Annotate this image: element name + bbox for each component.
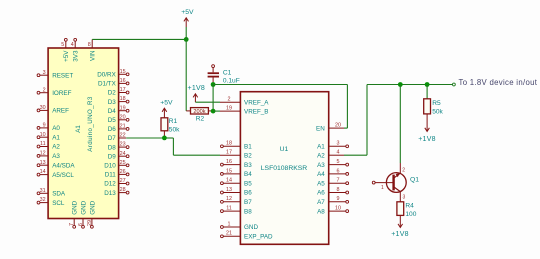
junction VREF_B node [211, 109, 216, 114]
svg-text:A5/SCL: A5/SCL [52, 172, 74, 179]
A1 pin 27 D12 [104, 178, 129, 188]
svg-text:10: 10 [335, 206, 341, 212]
resistor R1 50k [161, 118, 168, 138]
svg-text:9: 9 [337, 196, 340, 202]
Q1 pin 1 number [381, 185, 384, 191]
svg-text:20: 20 [120, 114, 126, 120]
label 100 [405, 211, 416, 218]
wire +5V vertical to R2 [185, 27, 187, 111]
A1 pin 24 D9 [108, 151, 129, 161]
svg-text:AREF: AREF [52, 108, 69, 115]
U1 pin 18 B1 [221, 141, 253, 151]
A1 pin 10 A1 [37, 132, 60, 142]
value Arduino_UNO_R3 [87, 96, 94, 152]
svg-text:EXP_PAD: EXP_PAD [244, 234, 273, 241]
svg-text:2: 2 [43, 87, 46, 93]
A1 pin 13 A4/SDA [37, 160, 75, 170]
svg-text:A1: A1 [317, 144, 325, 151]
svg-text:7: 7 [337, 178, 340, 184]
junction +5V/VIN node [184, 37, 189, 42]
svg-text:B1: B1 [244, 144, 252, 151]
power +1V8 at R4 [391, 223, 409, 238]
svg-text:To 1.8V device in/out: To 1.8V device in/out [459, 78, 538, 87]
svg-text:8: 8 [337, 187, 340, 193]
U1 pin 16 B3 [221, 159, 253, 169]
svg-text:26: 26 [120, 169, 126, 175]
svg-text:SCL: SCL [52, 200, 65, 207]
A1 pin 28 D13 [104, 187, 129, 197]
svg-text:18: 18 [226, 141, 232, 147]
svg-text:31: 31 [40, 188, 46, 194]
U1 pin 6 A4 [317, 168, 349, 178]
svg-text:A4/SDA: A4/SDA [52, 162, 75, 169]
svg-text:18: 18 [120, 96, 126, 102]
svg-text:B5: B5 [244, 180, 252, 187]
U1 pin 4 A2 [317, 150, 344, 160]
junction R5 node [425, 82, 430, 87]
svg-text:C1: C1 [223, 70, 232, 77]
svg-text:A2: A2 [317, 152, 325, 159]
junction R1/D7 node [162, 136, 167, 141]
svg-text:11: 11 [40, 141, 46, 147]
svg-text:2: 2 [228, 97, 231, 103]
U1 pin 11 B8 [221, 206, 253, 216]
svg-text:21: 21 [120, 124, 126, 130]
A1 pin 5 +5V [61, 38, 70, 61]
A1 pin 20 D5 [108, 114, 129, 124]
svg-text:+5V: +5V [63, 50, 70, 62]
svg-text:GND: GND [80, 200, 87, 214]
wire C1 node down to VREF_B node [212, 85, 214, 112]
svg-text:13: 13 [226, 187, 232, 193]
U1 pin 5 A3 [317, 159, 349, 169]
svg-text:9: 9 [43, 123, 46, 129]
A1 pin 16 D1/TX [98, 78, 129, 88]
label 50k R1 [169, 126, 180, 133]
U1 pin 7 A5 [317, 178, 349, 188]
svg-text:VREF_B: VREF_B [244, 108, 269, 115]
svg-text:3: 3 [43, 70, 46, 76]
A1 pin 19 D4 [108, 105, 129, 115]
svg-text:22: 22 [120, 133, 126, 139]
svg-text:R2: R2 [196, 115, 205, 122]
A1 pin 3 RESET [37, 70, 73, 80]
label C1 [223, 70, 232, 77]
Q1 pin 2 number [402, 168, 405, 174]
U1 pin 20 EN [316, 123, 344, 133]
svg-text:A8: A8 [317, 208, 325, 215]
junction C1 bottom node [211, 82, 216, 87]
U1 pin 3 A1 [317, 141, 349, 151]
U1 pin 15 B4 [221, 168, 253, 178]
svg-text:1: 1 [228, 221, 231, 227]
arduino module A1 body [48, 48, 119, 219]
power +5V at R1 [160, 100, 173, 118]
resistor R4 100 [397, 202, 404, 223]
svg-text:15: 15 [120, 69, 126, 75]
wire VIN to +5V [92, 38, 186, 40]
wire device line to Q1 [399, 85, 401, 164]
label Q1 [410, 176, 419, 183]
svg-text:B7: B7 [244, 199, 252, 206]
label 0.1uF [223, 77, 240, 84]
wire D7 to R1 and B2 [126, 138, 220, 155]
svg-text:GND: GND [89, 200, 96, 214]
svg-text:D9: D9 [108, 153, 117, 160]
svg-text:25: 25 [120, 160, 126, 166]
wire +1V8 to VREF_A [195, 101, 220, 103]
A1 pin 26 D11 [105, 169, 129, 179]
svg-text:A2: A2 [52, 144, 60, 151]
IC U1 LSF0108RKSR body [240, 92, 328, 245]
svg-text:D7: D7 [108, 135, 117, 142]
svg-text:R1: R1 [169, 118, 178, 125]
svg-text:D5: D5 [108, 117, 117, 124]
power +1V8 at VREF_A [188, 85, 206, 102]
svg-text:EN: EN [316, 125, 325, 132]
svg-text:50k: 50k [169, 126, 180, 133]
svg-text:28: 28 [120, 187, 126, 193]
U1 pin 1 GND [221, 221, 259, 231]
U1 pin 10 A8 [317, 206, 349, 216]
svg-text:7: 7 [69, 223, 75, 226]
svg-text:GND: GND [72, 200, 79, 214]
svg-text:D11: D11 [105, 172, 117, 179]
svg-text:11: 11 [226, 206, 232, 212]
label R5 [432, 100, 441, 107]
svg-text:B8: B8 [244, 208, 252, 215]
svg-text:VIN: VIN [90, 50, 97, 61]
svg-text:D3: D3 [108, 99, 117, 106]
A1 pin 4 3V3 [71, 38, 80, 61]
svg-text:5: 5 [337, 159, 340, 165]
U1 pin 19 VREF_B [220, 106, 269, 116]
svg-text:16: 16 [226, 159, 232, 165]
svg-text:D1/TX: D1/TX [98, 81, 117, 88]
svg-text:Q1: Q1 [410, 176, 419, 183]
svg-text:D6: D6 [108, 126, 117, 133]
svg-text:12: 12 [226, 196, 232, 202]
svg-text:10: 10 [40, 132, 46, 138]
svg-text:IOREF: IOREF [52, 90, 71, 97]
svg-text:29: 29 [87, 220, 93, 226]
svg-text:5: 5 [61, 42, 64, 48]
wire VREF_B node to pin 19 [213, 110, 220, 112]
svg-text:+1V8: +1V8 [391, 231, 409, 238]
svg-text:3: 3 [337, 141, 340, 147]
U1 pin 12 B7 [221, 196, 253, 206]
svg-text:D12: D12 [104, 181, 116, 188]
svg-text:50k: 50k [432, 108, 443, 115]
label To 1.8V device in/out [459, 78, 538, 87]
value LSF0108RKSR [261, 165, 308, 172]
svg-text:Arduino_UNO_R3: Arduino_UNO_R3 [87, 96, 94, 152]
svg-text:8: 8 [88, 42, 91, 48]
A1 pin 31 SDA [37, 188, 66, 198]
A1 pin 30 AREF [37, 105, 69, 115]
svg-text:B6: B6 [244, 190, 252, 197]
svg-text:2: 2 [402, 168, 405, 174]
svg-text:12: 12 [40, 151, 46, 157]
svg-text:17: 17 [120, 87, 126, 93]
svg-text:A3: A3 [52, 153, 60, 160]
svg-text:A6: A6 [317, 190, 325, 197]
svg-text:24: 24 [120, 151, 126, 157]
svg-text:200k: 200k [193, 109, 205, 115]
svg-text:D13: D13 [104, 190, 116, 197]
svg-text:A3: A3 [317, 162, 325, 169]
svg-text:A1: A1 [75, 125, 82, 133]
svg-text:R5: R5 [432, 100, 441, 107]
svg-text:A5: A5 [317, 180, 325, 187]
A1 pin 8 VIN [88, 39, 97, 61]
svg-text:32: 32 [40, 197, 46, 203]
U1 pin 8 A6 [317, 187, 349, 197]
svg-text:A0: A0 [52, 125, 60, 132]
U1 pin 21 EXP_PAD [221, 231, 274, 241]
svg-text:6: 6 [337, 168, 340, 174]
wire A2 to device line [344, 85, 367, 156]
svg-text:A7: A7 [317, 199, 325, 206]
svg-text:+1V8: +1V8 [188, 85, 206, 92]
svg-text:0.1uF: 0.1uF [223, 77, 240, 84]
resistor R2 200k [186, 108, 213, 116]
U1 pin 13 B6 [221, 187, 253, 197]
A1 pin 11 A2 [37, 141, 60, 151]
A1 pin 7 GND [69, 200, 78, 228]
svg-text:4: 4 [71, 42, 74, 48]
svg-text:17: 17 [226, 150, 232, 156]
svg-text:B4: B4 [244, 171, 252, 178]
label 50k R5 [432, 108, 443, 115]
svg-text:30: 30 [40, 105, 46, 111]
svg-text:3V3: 3V3 [73, 50, 80, 62]
U1 pin 17 B2 [220, 150, 252, 160]
svg-text:100: 100 [405, 211, 416, 218]
svg-text:13: 13 [40, 160, 46, 166]
A1 pin 22 D7 [108, 133, 126, 143]
svg-text:R4: R4 [405, 202, 414, 209]
svg-text:4: 4 [337, 150, 340, 156]
svg-text:VREF_A: VREF_A [244, 99, 269, 106]
svg-text:14: 14 [40, 169, 46, 175]
svg-text:+1V8: +1V8 [418, 136, 436, 143]
svg-text:D0/RX: D0/RX [97, 72, 116, 79]
transistor Q1 [372, 163, 406, 202]
A1 pin 25 D10 [104, 160, 129, 170]
A1 pin 21 D6 [108, 124, 129, 134]
reference A1 [75, 125, 82, 133]
svg-text:RESET: RESET [52, 72, 73, 79]
label R2 [196, 115, 205, 122]
A1 pin 9 A0 [37, 123, 60, 133]
A1 pin 2 IOREF [37, 87, 71, 97]
A1 pin 6 GND [78, 200, 87, 228]
svg-text:B2: B2 [244, 152, 252, 159]
U1 pin 14 B5 [221, 178, 253, 188]
resistor R5 50k [424, 85, 431, 120]
svg-text:D8: D8 [108, 144, 117, 151]
svg-text:GND: GND [244, 224, 258, 231]
svg-text:6: 6 [78, 223, 84, 226]
svg-text:3: 3 [403, 194, 406, 200]
svg-text:U1: U1 [280, 146, 289, 153]
U1 pin 2 VREF_A [220, 97, 269, 107]
svg-text:+5V: +5V [160, 100, 173, 107]
svg-text:LSF0108RKSR: LSF0108RKSR [261, 165, 308, 172]
svg-text:SDA: SDA [52, 191, 66, 198]
reference U1 [280, 146, 289, 153]
svg-text:19: 19 [120, 105, 126, 111]
svg-text:A4: A4 [317, 171, 325, 178]
A1 pin 15 D0/RX [97, 69, 129, 79]
A1 pin 29 GND [87, 200, 96, 228]
power +5V top symbol [181, 9, 194, 27]
A1 pin 14 A5/SCL [37, 169, 74, 179]
A1 pin 12 A3 [37, 151, 60, 161]
A1 pin 17 D2 [108, 87, 129, 97]
label R1 [169, 118, 178, 125]
junction Q1 collector node [398, 82, 403, 87]
A1 pin 23 D8 [108, 142, 129, 152]
wire device line [367, 83, 455, 86]
svg-text:27: 27 [120, 178, 126, 184]
svg-text:D4: D4 [108, 108, 117, 115]
svg-text:20: 20 [335, 123, 341, 129]
A1 pin 18 D3 [108, 96, 129, 106]
U1 pin 9 A7 [317, 196, 349, 206]
svg-text:14: 14 [226, 178, 232, 184]
power +1V8 at R5 [418, 120, 436, 143]
capacitor C1 0.1uF [208, 65, 219, 85]
svg-text:21: 21 [226, 231, 232, 237]
wire C1 node to EN [213, 85, 347, 129]
svg-text:15: 15 [226, 168, 232, 174]
Q1 pin 3 number [403, 194, 406, 200]
svg-text:D2: D2 [108, 90, 117, 97]
label R4 [405, 202, 414, 209]
svg-text:19: 19 [226, 106, 232, 112]
svg-text:+5V: +5V [181, 9, 194, 16]
svg-text:1: 1 [381, 185, 384, 191]
svg-text:A1: A1 [52, 134, 60, 141]
A1 pin 32 SCL [37, 197, 65, 207]
svg-text:B3: B3 [244, 162, 252, 169]
svg-text:16: 16 [120, 78, 126, 84]
svg-text:D10: D10 [104, 163, 116, 170]
svg-text:23: 23 [120, 142, 126, 148]
